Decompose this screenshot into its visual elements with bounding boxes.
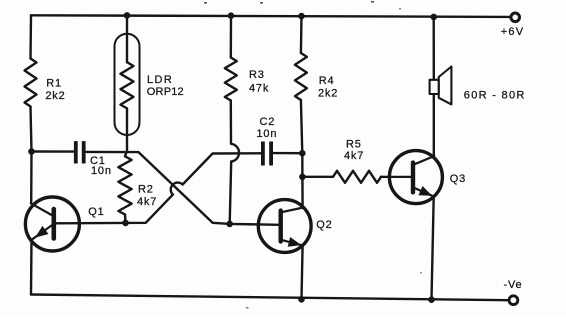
- svg-text:R3: R3: [249, 69, 265, 81]
- svg-text:R2: R2: [138, 183, 154, 195]
- svg-text:10n: 10n: [257, 128, 278, 140]
- svg-text:Q1: Q1: [88, 206, 104, 218]
- svg-text:4k7: 4k7: [137, 196, 157, 208]
- svg-text:R5: R5: [346, 139, 362, 151]
- svg-text:47k: 47k: [249, 82, 269, 94]
- svg-text:R4: R4: [319, 75, 335, 87]
- svg-text:+6V: +6V: [501, 26, 524, 38]
- svg-text:2k2: 2k2: [318, 87, 338, 99]
- svg-text:R1: R1: [46, 77, 62, 89]
- svg-text:ORP12: ORP12: [147, 86, 184, 98]
- svg-text:4k7: 4k7: [344, 150, 364, 162]
- svg-text:Q3: Q3: [450, 173, 466, 185]
- svg-text:-Ve: -Ve: [504, 279, 523, 291]
- svg-text:10n: 10n: [91, 165, 112, 177]
- svg-text:60R - 80R: 60R - 80R: [464, 90, 526, 102]
- svg-text:LDR: LDR: [147, 74, 173, 86]
- svg-text:2k2: 2k2: [45, 90, 65, 102]
- svg-text:Q2: Q2: [316, 219, 332, 231]
- svg-text:C2: C2: [260, 116, 276, 128]
